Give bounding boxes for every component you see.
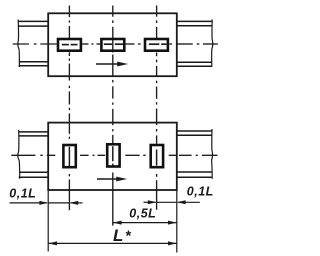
bottom view: right shaft outline — [177, 131, 212, 177]
top view: right shaft break line — [212, 20, 213, 68]
top view: indentation rectangle 1 — [58, 39, 81, 51]
svg-text:*: * — [125, 229, 132, 245]
svg-text:L: L — [113, 226, 123, 245]
bottom view: left shaft break line — [18, 130, 20, 179]
bottom view: direction arrow — [97, 177, 127, 182]
top view: left shaft outline — [18, 21, 48, 65]
top view: left shaft break line — [18, 20, 20, 68]
bottom view: left shaft outline — [19, 132, 49, 177]
dimension L* — [48, 241, 177, 245]
dimension 0,1L left: outside arrows — [10, 201, 83, 205]
top view: indentation rectangle 3 — [145, 39, 168, 51]
svg-text:0,5L: 0,5L — [129, 206, 156, 220]
bottom view: horizontal axis center line (y=155.3) dash-dot segments — [11, 154, 217, 156]
top view: specimen body rectangle — [48, 13, 177, 76]
bottom view: indentation rectangle 1 — [63, 145, 75, 167]
bottom view: indentation rectangle 2 — [107, 144, 119, 166]
dimension 0,1L right: outside arrows — [144, 200, 200, 204]
vertical center line 3 (x=156.6) dash-dot segments — [156, 6, 158, 210]
vertical center line 1 (x=69.4) dash-dot segments — [68, 6, 70, 211]
top view: right shaft outline — [177, 21, 212, 66]
extension line: left edge of body — [47, 190, 49, 251]
bottom view: right shaft break line — [212, 129, 213, 179]
svg-text:0,1L: 0,1L — [187, 184, 214, 198]
dimension 0,5L — [113, 221, 177, 225]
vertical center line 2 (x=112.8) dash-dot segments — [112, 6, 114, 226]
extension line: right edge of body — [176, 190, 178, 252]
top view: horizontal axis center line (y=44) dash-dot segments — [13, 43, 218, 46]
bottom view: indentation rectangle 3 — [151, 145, 163, 167]
bottom view: specimen body rectangle — [48, 123, 177, 190]
top view: indentation rectangle 2 — [101, 39, 124, 51]
svg-text:0,1L: 0,1L — [9, 187, 36, 201]
top view: direction arrow — [96, 62, 128, 67]
